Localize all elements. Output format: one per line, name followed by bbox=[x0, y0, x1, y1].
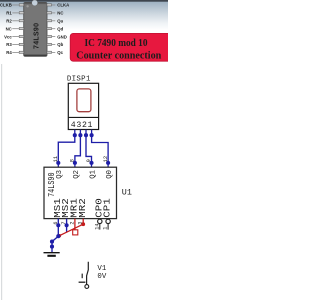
svg-text:Qc: Qc bbox=[57, 50, 63, 55]
junction dot MS1 bbox=[56, 223, 60, 227]
svg-text:2: 2 bbox=[69, 221, 75, 224]
red selected wire diagonal bbox=[59, 224, 84, 236]
svg-text:14: 14 bbox=[94, 224, 100, 230]
left pin leader lines bbox=[12, 5, 19, 52]
svg-text:6: 6 bbox=[53, 221, 59, 224]
U1 pin MS1 stub bbox=[57, 219, 59, 226]
svg-text:Q0: Q0 bbox=[106, 170, 114, 179]
top border line bbox=[0, 0, 168, 2]
right pin labels CLKA NC Qa Qd GND Qb Qc bbox=[57, 3, 69, 55]
svg-text:Q3: Q3 bbox=[56, 170, 64, 179]
U1 pin CP1 bubble bbox=[106, 219, 110, 223]
svg-text:CP1: CP1 bbox=[103, 198, 113, 218]
svg-text:Q1: Q1 bbox=[89, 170, 97, 179]
svg-text:IC 7490 mod 10: IC 7490 mod 10 bbox=[85, 38, 148, 49]
ground symbol bbox=[44, 253, 60, 256]
wire MS2 down bbox=[66, 225, 68, 232]
red junction dot at net bbox=[58, 234, 61, 237]
U1 pin MS2 stub bbox=[66, 219, 68, 226]
voltage source V1 terminal circle bbox=[85, 285, 89, 289]
svg-text:CLKA: CLKA bbox=[57, 3, 69, 8]
svg-text:7: 7 bbox=[61, 221, 67, 224]
sky gradient band bbox=[0, 1, 168, 31]
svg-text:U1: U1 bbox=[122, 188, 132, 198]
junction dot ground wire upper bbox=[50, 240, 54, 244]
svg-text:9: 9 bbox=[85, 159, 92, 162]
red selection square bbox=[73, 230, 78, 235]
red pin MR2 stub bbox=[82, 219, 84, 225]
wire jog to ground bbox=[52, 236, 58, 252]
U1 pin CP0 bubble bbox=[98, 219, 102, 223]
package notch bbox=[32, 0, 38, 6]
svg-text:NC: NC bbox=[57, 11, 63, 16]
left pin labels CLKB R1 R2 NC Vcc R3 R4 bbox=[0, 3, 12, 55]
svg-text:R1: R1 bbox=[6, 11, 12, 16]
svg-text:0V: 0V bbox=[97, 273, 106, 281]
display pin stubs bbox=[75, 130, 92, 136]
left package pins bbox=[19, 4, 24, 54]
svg-text:R4: R4 bbox=[6, 50, 12, 55]
wire MS1 down bbox=[57, 225, 59, 236]
svg-text:CLKB: CLKB bbox=[0, 3, 12, 8]
wire display pin1 to U1 Q0 bbox=[92, 135, 109, 163]
U1 pin CP1 stub bbox=[107, 224, 109, 230]
red pin MR1 stub bbox=[74, 219, 76, 231]
svg-text:Counter connection: Counter connection bbox=[76, 51, 161, 62]
svg-text:R2: R2 bbox=[6, 19, 12, 24]
junction dot ground wire lower bbox=[50, 245, 54, 249]
voltage source V1 plate tick bbox=[81, 274, 83, 279]
svg-text:8: 8 bbox=[69, 159, 76, 162]
svg-text:Qb: Qb bbox=[57, 42, 63, 47]
voltage source V1 plate bar bbox=[79, 281, 86, 283]
wire display pin4 to U1 Q3 bbox=[58, 135, 75, 163]
svg-text:12: 12 bbox=[102, 156, 109, 163]
pin 1 marker dot bbox=[26, 5, 28, 7]
svg-text:DISP1: DISP1 bbox=[67, 75, 91, 83]
red title banner bbox=[70, 33, 171, 61]
svg-text:3: 3 bbox=[78, 221, 84, 224]
U1 pin CP0 stub bbox=[99, 224, 101, 230]
banner title text bbox=[76, 38, 161, 61]
svg-text:Vcc: Vcc bbox=[4, 34, 12, 39]
svg-text:MR2: MR2 bbox=[78, 198, 88, 218]
svg-text:NC: NC bbox=[6, 26, 12, 31]
svg-text:1: 1 bbox=[88, 121, 93, 130]
right package pins bbox=[47, 4, 52, 54]
junction dots at U1 top pins bbox=[56, 161, 110, 165]
svg-text:3: 3 bbox=[76, 121, 81, 130]
svg-text:2: 2 bbox=[82, 121, 87, 130]
display divider line bbox=[68, 116, 98, 118]
IC package pictorial 74LS90 body bbox=[24, 3, 47, 57]
svg-text:11: 11 bbox=[52, 155, 59, 162]
seven segment digit outline bbox=[77, 89, 91, 112]
svg-text:V1: V1 bbox=[97, 265, 106, 273]
svg-text:Qd: Qd bbox=[57, 26, 63, 31]
wire display pin2 to U1 Q1 bbox=[86, 135, 92, 163]
svg-text:1: 1 bbox=[103, 227, 109, 230]
svg-text:4: 4 bbox=[71, 121, 76, 130]
U1 top pin stubs bbox=[58, 163, 108, 167]
svg-text:R3: R3 bbox=[6, 42, 12, 47]
IC U1 74LS90 body bbox=[44, 167, 117, 218]
svg-text:Q2: Q2 bbox=[73, 170, 81, 179]
voltage source V1 wire bbox=[87, 262, 89, 285]
junction dot net to ground bbox=[56, 234, 60, 238]
display DISP1 box bbox=[68, 83, 98, 129]
left window border line bbox=[1, 64, 2, 300]
red junction dot MR2 bbox=[81, 222, 85, 226]
svg-text:74LS90: 74LS90 bbox=[34, 23, 41, 49]
svg-text:Qa: Qa bbox=[57, 19, 63, 24]
right pin leader lines bbox=[52, 5, 56, 52]
junction dots under display bbox=[73, 133, 94, 137]
wire display pin3 to U1 Q2 bbox=[75, 135, 81, 163]
svg-text:GND: GND bbox=[57, 34, 67, 39]
junction dot MS2 bbox=[65, 223, 69, 227]
